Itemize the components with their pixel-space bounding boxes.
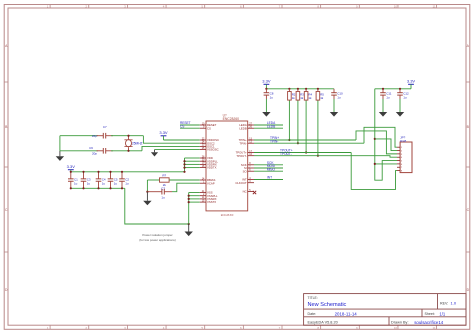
svg-text:(for low power applications): (for low power applications)	[139, 238, 176, 242]
svg-text:RJ45: RJ45	[400, 139, 407, 143]
svg-text:VDDTX: VDDTX	[207, 166, 217, 170]
svg-text:3.3V: 3.3V	[262, 78, 271, 83]
svg-text:LEDB: LEDB	[239, 126, 246, 130]
svg-text:1k: 1k	[308, 96, 312, 100]
svg-text:C6: C6	[89, 146, 93, 150]
svg-text:CS: CS	[180, 124, 184, 128]
svg-text:EasyEDA V5.8.20: EasyEDA V5.8.20	[308, 321, 338, 325]
svg-text:INT: INT	[267, 176, 272, 180]
svg-text:1u: 1u	[386, 96, 390, 100]
svg-text:TITLE:: TITLE:	[308, 296, 318, 300]
svg-text:10: 10	[394, 5, 398, 9]
svg-text:1.0: 1.0	[451, 300, 457, 305]
svg-text:3.3V: 3.3V	[159, 130, 168, 135]
svg-text:TPOUT-: TPOUT-	[236, 154, 246, 158]
svg-text:1/1: 1/1	[439, 311, 445, 316]
svg-text:VSSTX: VSSTX	[207, 200, 216, 204]
svg-text:20p: 20p	[92, 134, 97, 138]
svg-text:TPIN-: TPIN-	[239, 141, 246, 145]
svg-text:11: 11	[433, 326, 436, 330]
svg-text:LEDB: LEDB	[267, 124, 275, 128]
svg-text:VCAP: VCAP	[207, 181, 215, 185]
svg-text:3.3V: 3.3V	[407, 78, 416, 83]
svg-text:1u: 1u	[74, 182, 78, 186]
svg-text:1u: 1u	[270, 96, 274, 100]
svg-text:ENC28J60: ENC28J60	[223, 117, 240, 121]
svg-text:1u: 1u	[337, 96, 341, 100]
svg-text:1u: 1u	[161, 196, 165, 200]
svg-text:VSSOSC: VSSOSC	[207, 148, 219, 152]
svg-text:TPIN-: TPIN-	[270, 139, 278, 143]
svg-text:New Schematic: New Schematic	[308, 302, 347, 308]
svg-text:10: 10	[394, 326, 398, 330]
svg-text:1u: 1u	[403, 96, 407, 100]
svg-text:REV:: REV:	[440, 301, 448, 305]
svg-text:R?: R?	[162, 174, 166, 178]
svg-text:soulsacrifice14: soulsacrifice14	[414, 320, 444, 325]
svg-text:Drawn By:: Drawn By:	[391, 321, 409, 325]
svg-text:ENC28J60: ENC28J60	[221, 213, 234, 217]
svg-text:Power isolation jumper: Power isolation jumper	[142, 233, 172, 237]
svg-text:11: 11	[433, 5, 436, 9]
svg-text:25MHZ: 25MHZ	[132, 142, 143, 146]
svg-text:NC: NC	[243, 190, 247, 194]
svg-text:1u: 1u	[114, 182, 118, 186]
svg-text:C?: C?	[161, 186, 165, 190]
svg-text:MISO: MISO	[267, 167, 276, 171]
svg-text:1u: 1u	[87, 182, 91, 186]
svg-text:2018-11-14: 2018-11-14	[335, 311, 358, 316]
svg-text:3.3V: 3.3V	[67, 164, 76, 169]
svg-text:Date:: Date:	[308, 312, 317, 316]
svg-text:C7: C7	[103, 125, 107, 129]
svg-text:20p: 20p	[92, 152, 97, 156]
svg-text:1u: 1u	[125, 182, 129, 186]
svg-text:1u: 1u	[102, 182, 106, 186]
svg-text:CLKOUT: CLKOUT	[235, 181, 247, 185]
svg-text:CS: CS	[207, 126, 211, 130]
svg-text:Sheet:: Sheet:	[425, 312, 435, 316]
